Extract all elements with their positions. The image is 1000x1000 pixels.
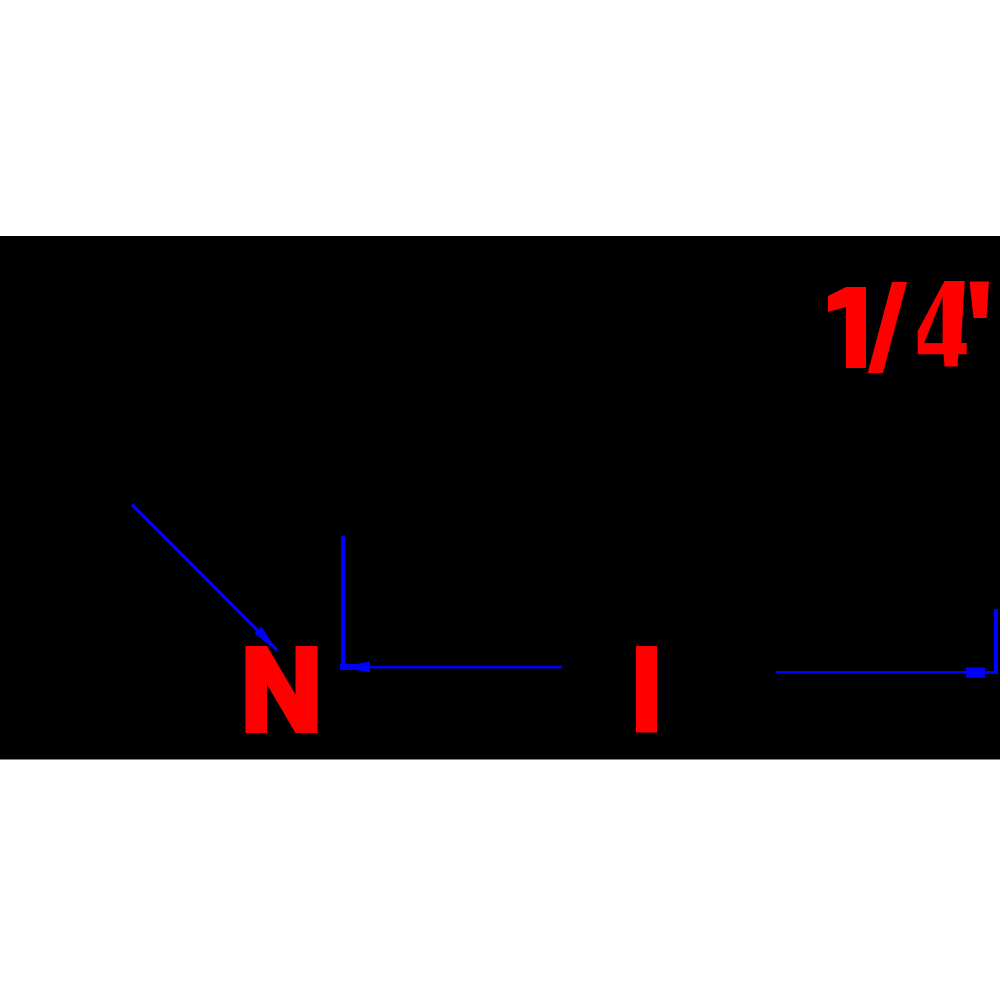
letter N (red)	[246, 646, 318, 733]
digit 4	[918, 281, 967, 367]
digit 1	[828, 287, 866, 368]
dimension label 1/4' (red)	[828, 281, 989, 373]
right extension tick	[994, 609, 998, 674]
left dimension arrow (pointing left)	[340, 662, 562, 673]
leader arrowhead	[255, 627, 278, 652]
inch prime mark	[970, 282, 990, 319]
right dimension line segment	[776, 609, 998, 678]
left dimension line segment	[368, 666, 562, 668]
right dimension arrow (pointing right)	[966, 667, 990, 678]
black moulding profile band	[0, 236, 1000, 760]
fraction slash	[868, 282, 907, 373]
vertical extension line	[341, 536, 345, 667]
letter I (red)	[636, 646, 657, 733]
diagonal leader line	[131, 503, 278, 651]
